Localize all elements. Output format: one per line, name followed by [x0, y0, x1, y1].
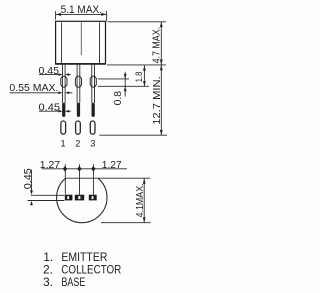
dimension 4.1 MAX line: [143, 178, 145, 222]
leader 0.45 lower arrowheads: [59, 110, 70, 113]
extension line lead bottom edge: [28, 200, 65, 202]
extension line lead top edge: [31, 194, 65, 196]
dimension 5.1 MAX line: [56, 13, 106, 15]
svg-text:BASE: BASE: [61, 275, 85, 289]
svg-text:0.55 MAX.: 0.55 MAX.: [9, 82, 58, 94]
dimension 0.45 bottom-left up arrow: [30, 201, 33, 206]
arrowheads 4.7 MAX: [160, 22, 163, 65]
leader 0.45 lower line: [39, 110, 60, 112]
package body front view outline: [56, 21, 106, 64]
leader 0.45 upper arrowheads: [59, 73, 70, 76]
leader 0.55 MAX arrowheads: [58, 92, 69, 95]
lead 1 tip capsule: [61, 121, 66, 134]
body left inner draft line: [61, 22, 63, 63]
svg-text:0.45: 0.45: [39, 101, 61, 113]
svg-text:1: 1: [61, 139, 66, 149]
svg-text:1.27: 1.27: [102, 159, 122, 171]
body bottom edge emphasis: [55, 63, 106, 65]
bottom view flat edge and 4.1 top extension: [66, 177, 151, 179]
extension line body top right: [108, 21, 166, 23]
svg-text:0.8: 0.8: [112, 91, 124, 106]
leader 0.45 upper right tail: [69, 74, 71, 76]
svg-text:0.45: 0.45: [22, 168, 34, 189]
leader 0.45 lower right tail: [69, 110, 71, 112]
extension lines lead pitch: [65, 164, 93, 194]
extension line bulge top right: [98, 78, 129, 80]
body right inner draft line: [99, 22, 101, 63]
body center mold line: [80, 22, 82, 55]
svg-text:5.1 MAX.: 5.1 MAX.: [61, 4, 103, 16]
arrowheads 12.7 MIN: [160, 65, 163, 135]
lead 1 break end: [62, 103, 65, 117]
bottom view lead 3: [89, 195, 97, 201]
arrowheads 4.1 MAX: [143, 179, 146, 223]
lead 2 tip capsule: [76, 121, 81, 134]
bottom view lead 2: [75, 195, 84, 201]
svg-text:1.27: 1.27: [40, 159, 60, 171]
lead 2 flattened bulge: [75, 76, 81, 87]
dimension 0.8 vertical line: [124, 72, 126, 97]
dimension 4.7 MAX / 12.7 MIN line: [160, 22, 162, 135]
lead 1 flattened bulge: [61, 76, 67, 87]
bottom view outline: [57, 178, 107, 223]
lead 2 break end: [77, 103, 80, 117]
lead 1 narrow segment: [63, 64, 66, 103]
extension line body bottom right: [107, 64, 166, 66]
lead 3 narrow segment: [92, 64, 95, 103]
svg-text:3: 3: [90, 139, 95, 149]
lead 3 tip capsule: [90, 121, 95, 134]
lead 2 narrow segment: [77, 64, 80, 103]
svg-text:4.7 MAX.: 4.7 MAX.: [151, 27, 163, 64]
leader 0.55 MAX line: [10, 92, 60, 94]
lead 3 break end: [92, 103, 95, 117]
leader 0.55 MAX right tail: [69, 92, 72, 94]
leader 0.45 upper line: [39, 74, 60, 76]
arrow diamonds 1.27: [63, 166, 96, 172]
bottom view lead 1: [65, 195, 73, 201]
dimension 1.27 line: [42, 168, 128, 170]
svg-text:12.7 MIN.: 12.7 MIN.: [151, 76, 163, 125]
lead 3 flattened bulge: [90, 76, 96, 87]
dimension 0.8 up arrow: [124, 86, 127, 91]
svg-text:1.8: 1.8: [134, 72, 145, 83]
dimension 5.1 MAX extension lines: [56, 11, 107, 21]
extension line circle bottom right: [101, 222, 151, 224]
dimension 1.8 line: [143, 66, 145, 86]
svg-text:0.45: 0.45: [39, 65, 60, 77]
svg-text:4.1MAX.: 4.1MAX.: [134, 183, 146, 217]
dimension 0.8 down arrow: [124, 74, 127, 79]
extension line bulge bottom right: [98, 85, 149, 87]
extension line lead tip bottom: [99, 134, 167, 136]
dimension 5.1 MAX arrowheads: [56, 13, 107, 16]
svg-text:2: 2: [75, 139, 80, 149]
svg-text:3.: 3.: [43, 275, 53, 289]
dimension 0.45 bottom-left down arrow: [31, 170, 33, 192]
arrowheads 1.8: [143, 65, 146, 86]
